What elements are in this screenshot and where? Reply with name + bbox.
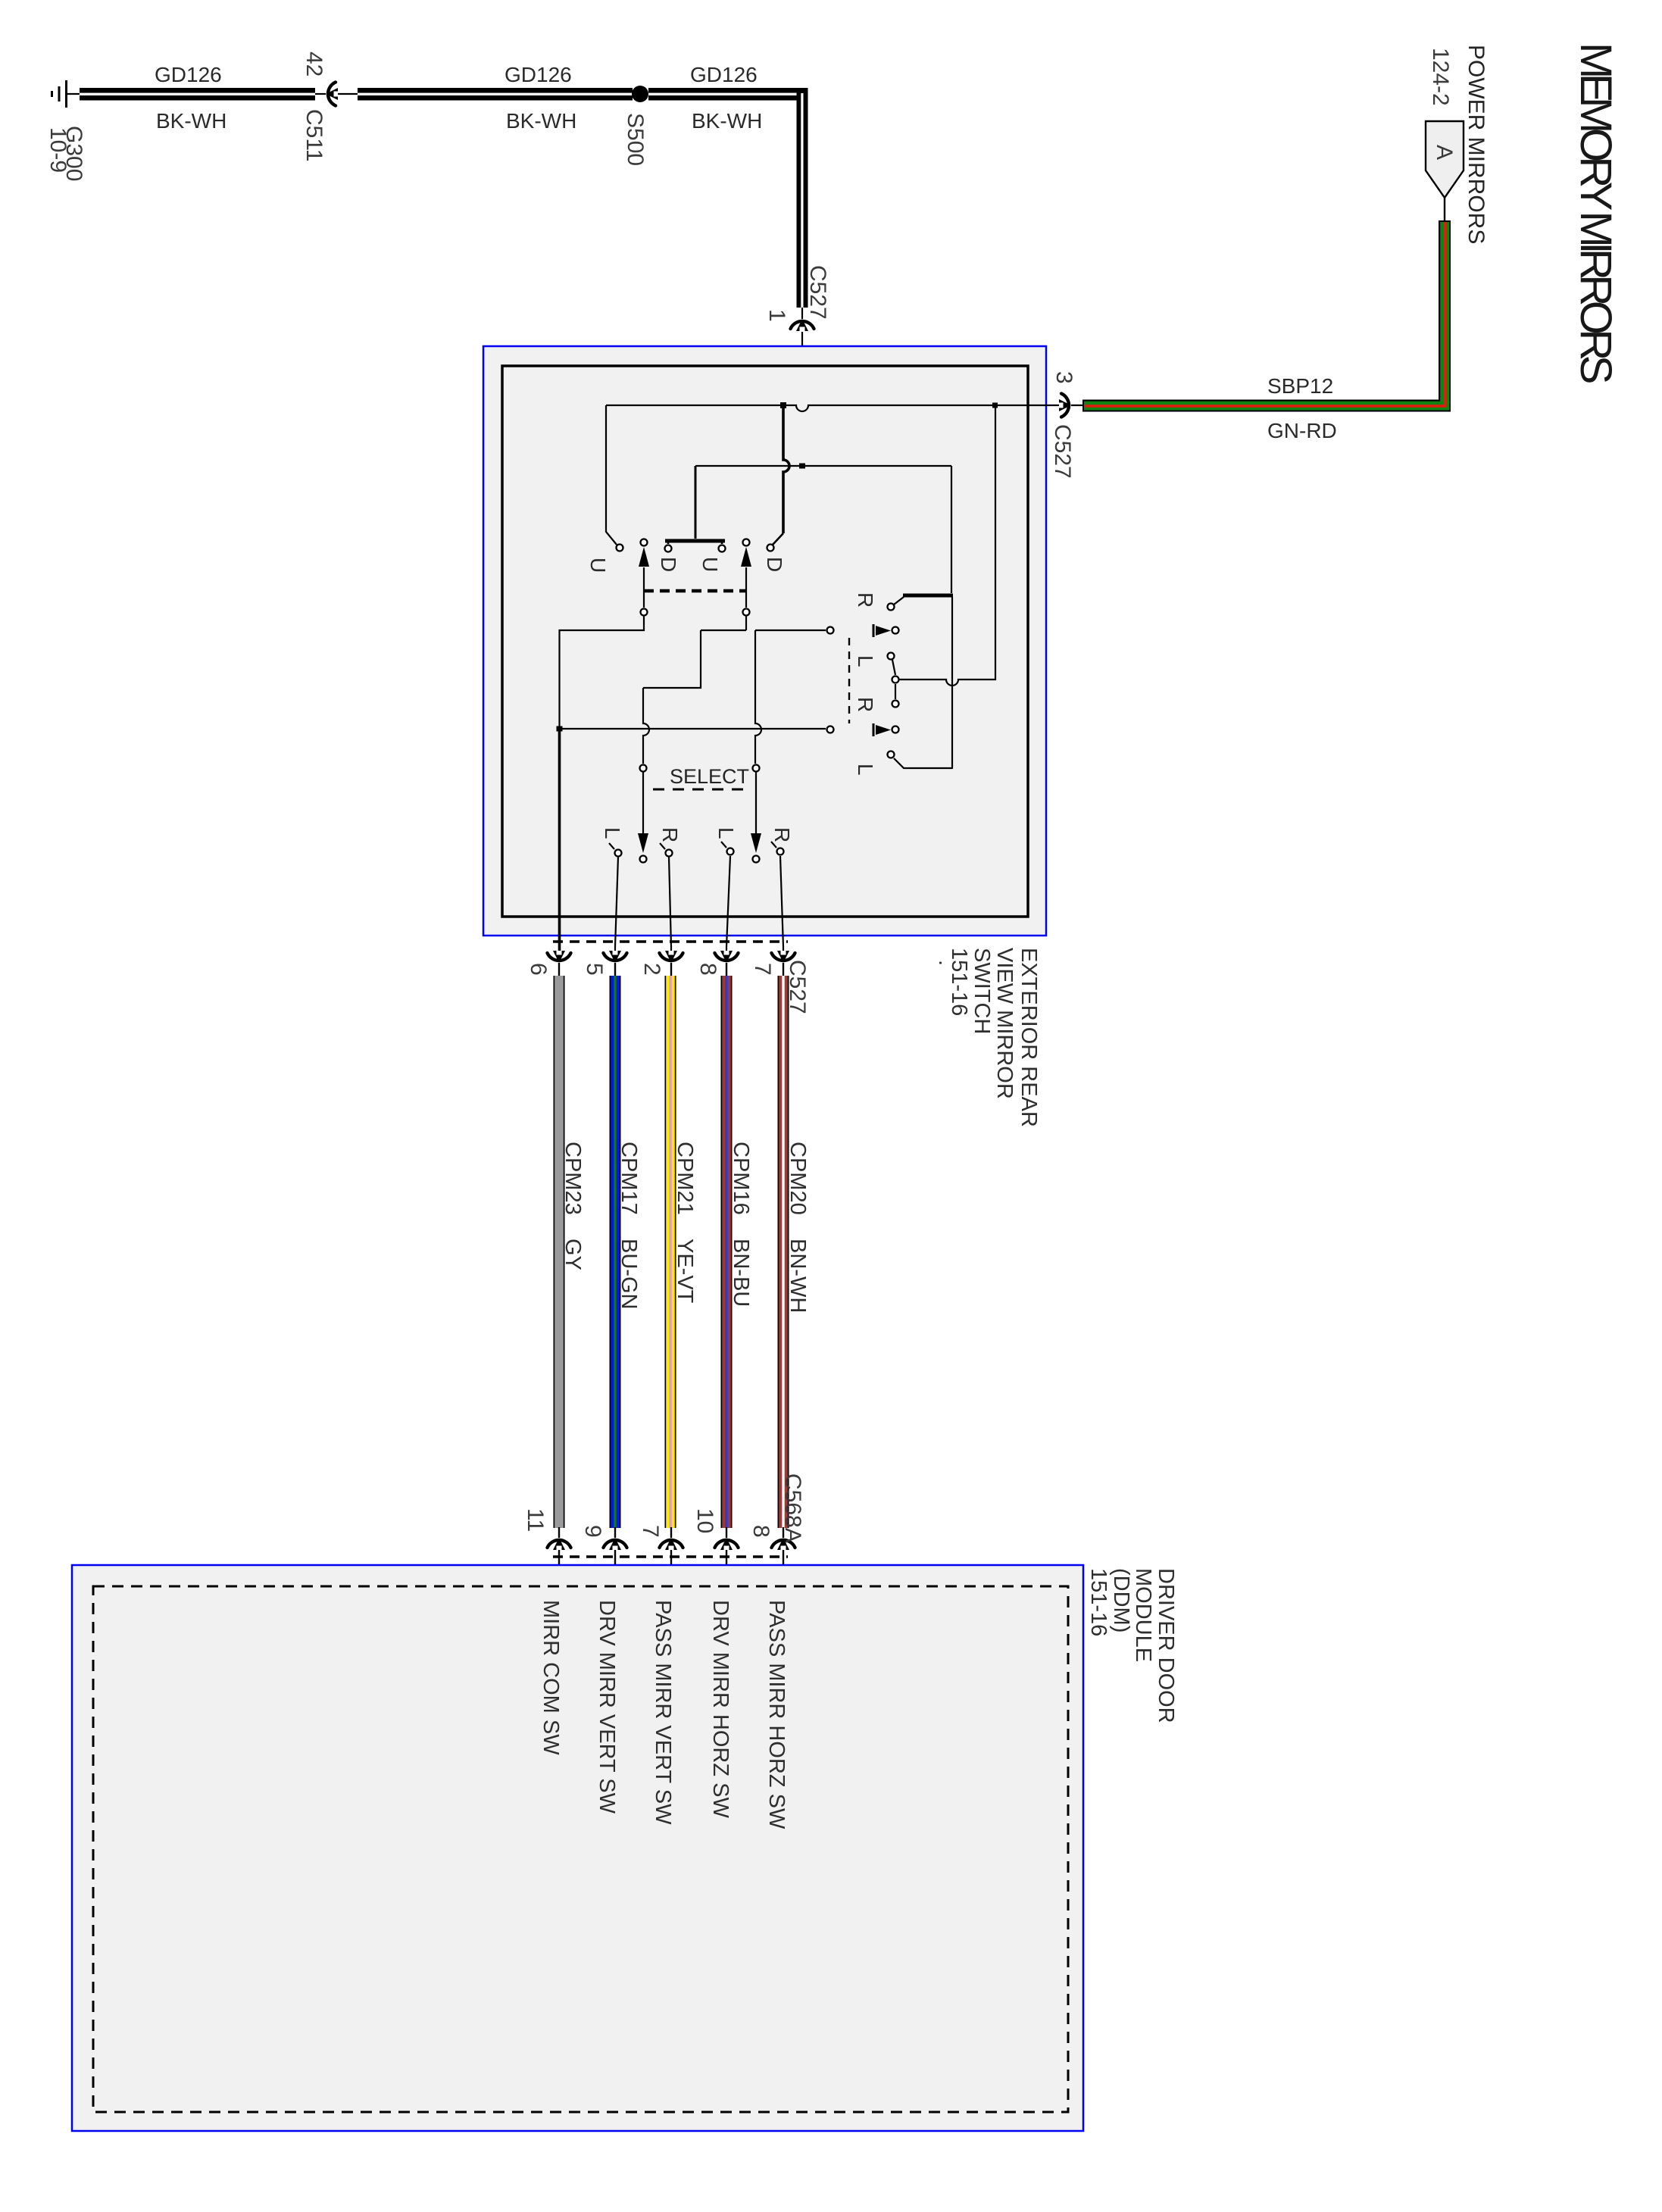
svg-text:GN-RD: GN-RD bbox=[1267, 419, 1337, 442]
svg-text:L: L bbox=[601, 827, 624, 839]
svg-text:CPM16: CPM16 bbox=[729, 1142, 753, 1215]
svg-text:BN-BU: BN-BU bbox=[729, 1239, 753, 1307]
svg-text:BK-WH: BK-WH bbox=[692, 109, 762, 133]
svg-text:124-2: 124-2 bbox=[1428, 48, 1453, 106]
svg-text:9: 9 bbox=[580, 1525, 605, 1538]
svg-text:S500: S500 bbox=[623, 113, 648, 166]
svg-text:SWITCH: SWITCH bbox=[970, 948, 994, 1034]
svg-text:CPM21: CPM21 bbox=[673, 1142, 697, 1215]
svg-text:R: R bbox=[770, 827, 794, 842]
svg-text:GD126: GD126 bbox=[690, 63, 758, 86]
svg-text:42: 42 bbox=[301, 52, 326, 77]
svg-text:6: 6 bbox=[526, 963, 551, 976]
svg-text:PASS MIRR HORZ SW: PASS MIRR HORZ SW bbox=[764, 1600, 789, 1829]
svg-text:R: R bbox=[658, 827, 682, 842]
svg-text:C568A: C568A bbox=[780, 1473, 805, 1543]
svg-text:VIEW MIRROR: VIEW MIRROR bbox=[992, 948, 1017, 1099]
svg-text:L: L bbox=[854, 764, 877, 776]
svg-text:YE-VT: YE-VT bbox=[673, 1239, 697, 1304]
svg-text:10: 10 bbox=[692, 1508, 717, 1533]
svg-text:U: U bbox=[698, 557, 722, 572]
svg-text:BN-WH: BN-WH bbox=[786, 1239, 810, 1313]
svg-text:L: L bbox=[854, 655, 877, 667]
svg-text:.: . bbox=[934, 960, 958, 966]
svg-text:BU-GN: BU-GN bbox=[617, 1239, 641, 1309]
svg-text:C527: C527 bbox=[805, 265, 830, 320]
svg-text:DRV MIRR VERT SW: DRV MIRR VERT SW bbox=[595, 1600, 619, 1814]
svg-text:A: A bbox=[1432, 145, 1457, 160]
svg-text:11: 11 bbox=[523, 1508, 548, 1532]
svg-text:(DDM): (DDM) bbox=[1109, 1568, 1133, 1632]
svg-text:PASS MIRR VERT SW: PASS MIRR VERT SW bbox=[651, 1600, 675, 1825]
svg-text:MEMORY MIRRORS: MEMORY MIRRORS bbox=[1571, 42, 1620, 383]
svg-text:MODULE: MODULE bbox=[1131, 1568, 1155, 1662]
svg-text:MIRR COM SW: MIRR COM SW bbox=[539, 1600, 563, 1755]
svg-text:2: 2 bbox=[639, 963, 664, 976]
svg-text:BK-WH: BK-WH bbox=[506, 109, 576, 133]
svg-text:D: D bbox=[763, 557, 786, 572]
svg-text:C511: C511 bbox=[301, 109, 326, 162]
svg-text:GD126: GD126 bbox=[155, 63, 222, 86]
svg-text:BK-WH: BK-WH bbox=[156, 109, 226, 133]
svg-text:L: L bbox=[714, 827, 738, 839]
svg-text:10-9: 10-9 bbox=[45, 127, 70, 173]
svg-text:POWER MIRRORS: POWER MIRRORS bbox=[1464, 45, 1489, 244]
svg-text:R: R bbox=[854, 592, 877, 608]
svg-text:3: 3 bbox=[1051, 371, 1076, 384]
svg-text:EXTERIOR REAR: EXTERIOR REAR bbox=[1017, 948, 1041, 1127]
svg-text:C527: C527 bbox=[1050, 424, 1075, 479]
svg-text:R: R bbox=[854, 697, 877, 712]
svg-text:SBP12: SBP12 bbox=[1267, 374, 1333, 398]
svg-text:7: 7 bbox=[638, 1525, 663, 1538]
svg-text:DRV MIRR HORZ SW: DRV MIRR HORZ SW bbox=[708, 1600, 733, 1818]
svg-text:8: 8 bbox=[748, 1525, 773, 1538]
svg-text:7: 7 bbox=[750, 963, 775, 976]
svg-text:U: U bbox=[586, 558, 610, 573]
svg-text:151-16: 151-16 bbox=[1086, 1568, 1111, 1636]
svg-text:GY: GY bbox=[561, 1239, 585, 1270]
svg-text:SELECT: SELECT bbox=[670, 765, 749, 788]
svg-text:8: 8 bbox=[695, 963, 720, 976]
svg-text:CPM23: CPM23 bbox=[561, 1142, 585, 1215]
svg-text:DRIVER DOOR: DRIVER DOOR bbox=[1154, 1568, 1178, 1723]
svg-text:151-16: 151-16 bbox=[947, 948, 971, 1016]
svg-text:GD126: GD126 bbox=[505, 63, 572, 86]
svg-text:1: 1 bbox=[764, 309, 789, 322]
svg-text:CPM20: CPM20 bbox=[786, 1142, 810, 1215]
svg-text:D: D bbox=[657, 557, 680, 572]
svg-text:5: 5 bbox=[582, 963, 607, 976]
svg-text:CPM17: CPM17 bbox=[617, 1142, 641, 1215]
